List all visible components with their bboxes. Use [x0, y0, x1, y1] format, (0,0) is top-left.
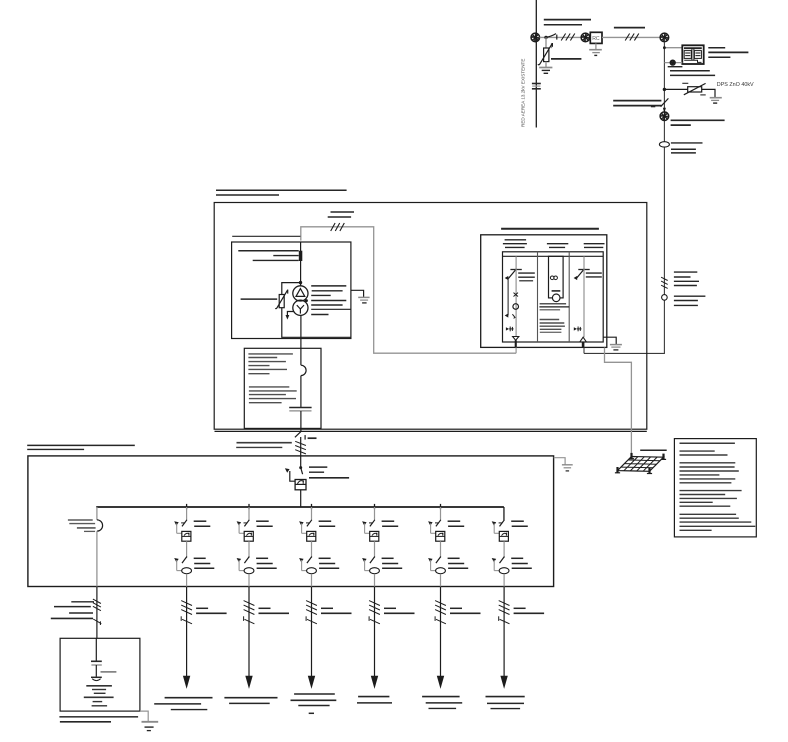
- comp3 feeder triangle: [580, 337, 587, 342]
- transformer T primary winding (delta): [293, 286, 308, 301]
- text bar (room title 2): [216, 194, 279, 196]
- surge arrester at transformer (varistor box): [279, 295, 284, 308]
- feeder 4 breaker blade: [370, 520, 375, 527]
- feeder 5 wire to box bottom: [440, 574, 442, 587]
- feeder 4 wire breaker to switch: [374, 541, 376, 558]
- three-phase slashes: [561, 34, 565, 41]
- feeder 2 arrowhead: [245, 676, 252, 689]
- feeder 6 drop wire: [503, 507, 505, 520]
- feeder 2 outgoing wire: [248, 587, 250, 678]
- arrester diagonal: [275, 290, 287, 309]
- three-phase slashes on LV main: [295, 441, 306, 445]
- feeder 5 switch label bars: [448, 557, 460, 559]
- fuse (filled): [299, 251, 303, 261]
- wire incoming overhead line (vertical): [535, 0, 537, 128]
- fuse (expulsion cutout ellipse): [659, 142, 669, 147]
- text bars (cable spec group 1): [674, 271, 697, 273]
- text bars (meter note): [670, 70, 710, 72]
- line break marks on overhead line: [532, 83, 541, 85]
- comp3 switch blade: [576, 269, 584, 278]
- earthing grid mesh: [618, 457, 664, 472]
- text bars (fuse label): [238, 250, 298, 252]
- comp3 test plug symbol: [574, 327, 577, 330]
- feeder 5 switch blade: [436, 557, 441, 564]
- three-phase slashes: [625, 34, 629, 41]
- feeder 6 arrowhead: [500, 676, 507, 689]
- comp2 fuse tube box: [549, 256, 564, 298]
- comp2 indicator lamp circle: [552, 294, 560, 302]
- switchgear inner box: [503, 252, 604, 342]
- surge arrester (varistor box): [544, 48, 549, 62]
- cabinet earth wire: [140, 711, 148, 721]
- comp2 bar: [552, 290, 561, 292]
- text bar (switch label): [308, 437, 317, 439]
- text bars left of riser disconnect: [613, 100, 661, 102]
- feeder 1 switch blade: [182, 557, 187, 564]
- comp2 shelf lines: [540, 303, 567, 305]
- feeder 4 arrowhead: [371, 676, 378, 689]
- feeder 1 wire to box bottom: [186, 574, 188, 587]
- comp3 top contact bar: [578, 269, 589, 271]
- grid corner rods: [630, 453, 632, 459]
- DPS ZnO 40kV surge arrester (varistor): [688, 87, 702, 92]
- feeder 5 destination label bars: [422, 696, 460, 698]
- wire: [95, 665, 97, 677]
- LV busbar: [96, 506, 504, 508]
- text bars (metering notes group 1): [248, 353, 293, 355]
- surge arrester diagonal stroke: [538, 43, 552, 65]
- comp1 label bars: [518, 272, 535, 274]
- feeder 5 switch arrow: [428, 558, 433, 562]
- disconnect switch blade: [546, 34, 556, 38]
- feeder 3 switch label bars: [319, 557, 331, 559]
- feeder 2 switch blade: [244, 557, 249, 564]
- feeder 4 switch label bars: [382, 557, 394, 559]
- three-phase slashes on cable: [331, 223, 335, 231]
- text bar above transformer box: [232, 235, 300, 237]
- feeder 3 switch blade: [307, 557, 312, 564]
- feeder 1 switch label bars: [194, 557, 206, 559]
- wire through CT: [300, 376, 302, 408]
- feeder 5 cable size bars: [450, 607, 462, 609]
- feeder 2 switch arrow: [237, 558, 242, 562]
- text bar (switchgear title): [501, 228, 599, 230]
- feeder 4 breaker label bars: [382, 520, 395, 522]
- comp3 feeder stud: [582, 342, 585, 348]
- feeder 5 fuse ellipse: [436, 568, 446, 574]
- current transformer (ring): [301, 365, 306, 375]
- small circle (cable marker): [662, 295, 668, 301]
- feeder 5 cable slashes: [435, 601, 446, 606]
- text bar (span label): [614, 27, 645, 29]
- svg-text:DPS ZnO 40kV: DPS ZnO 40kV: [717, 82, 754, 88]
- wire RC to pole node: [602, 36, 660, 38]
- ground (cabinet earth): [142, 721, 159, 723]
- feeder 6 destination label bars: [486, 696, 525, 698]
- CT node (small): [670, 60, 675, 65]
- text bar (arrester label): [241, 298, 278, 300]
- feeder 3 destination label bars: [294, 693, 335, 695]
- wire secondary to cell right side: [311, 308, 351, 310]
- comp3 plug contact: [574, 276, 578, 280]
- comp1 plug contact lower: [505, 313, 509, 317]
- text bars (meter labels): [708, 47, 725, 49]
- wire tap to kWh meter: [664, 47, 682, 49]
- wire tap to disconnector: [540, 36, 582, 38]
- feeder 3 cable size bars: [321, 607, 333, 609]
- node at pole riser: [660, 33, 669, 42]
- feeder 4 fuse ellipse: [370, 568, 380, 574]
- feeder 3 fuse ellipse: [307, 568, 317, 574]
- feeder 6 breaker trip arrow: [492, 521, 497, 525]
- battery stack plates: [86, 685, 112, 687]
- svg-text:RED AEREA 13.2kV EXISTENTE: RED AEREA 13.2kV EXISTENTE: [521, 59, 526, 127]
- wire comp1 stud down to cable: [515, 348, 517, 354]
- feeder 6 breaker box: [499, 531, 508, 541]
- feeder 5 bus tap: [440, 504, 442, 509]
- board enclosure earth wire: [554, 458, 566, 465]
- feeder 3 breaker label bars: [319, 520, 332, 522]
- cell earth tap wire: [351, 290, 364, 297]
- feeder 1 bus tap: [186, 504, 188, 509]
- feeder 4 switch arrow: [362, 558, 367, 562]
- feeder 2 wire to box bottom: [248, 574, 250, 587]
- feeder 5 outgoing wire: [440, 587, 442, 678]
- feeder 4 drop wire: [374, 507, 376, 520]
- wire transformer primary drop: [300, 242, 302, 286]
- line under boundary box: [215, 430, 647, 432]
- text bar (arrester label): [551, 58, 581, 60]
- comp2 text bar: [540, 309, 561, 311]
- transformer cell box: [232, 242, 351, 339]
- text bar (pole label line 2): [544, 24, 582, 26]
- feeder 6 switch arrow: [492, 558, 497, 562]
- winding junction dot: [305, 299, 308, 302]
- comp1 riser wire: [515, 256, 517, 269]
- wire to transformer arrester: [282, 283, 301, 295]
- text bar (battery label): [101, 671, 117, 673]
- comp1 wire: [515, 269, 517, 337]
- feeder 1 arrowhead: [183, 676, 190, 689]
- metering cabinet box: [244, 348, 321, 428]
- feeder 4 breaker trip arrow: [362, 521, 367, 525]
- feeder 2 cable size bars: [259, 607, 271, 609]
- wire CT tap to meter: [664, 62, 682, 64]
- feeder 3 arrowhead: [308, 676, 315, 689]
- text bars (transformer data): [311, 285, 346, 287]
- feeder 6 wire to box bottom: [503, 574, 505, 587]
- ground (transformer cell earth): [358, 296, 369, 298]
- feeder 3 switch arrow: [299, 558, 304, 562]
- feeder 6 switch label bars: [511, 557, 523, 559]
- DC supply drop wire: [96, 587, 98, 639]
- neutral grounding arrow: [287, 312, 293, 316]
- feeder 6 wire breaker to switch: [503, 541, 505, 558]
- feeder 2 fuse ellipse: [244, 568, 254, 574]
- text bars (cable label): [331, 211, 355, 213]
- feeder 4 outgoing wire: [374, 587, 376, 678]
- feeder 2 bus tap: [248, 504, 250, 509]
- main breaker trip arrow: [285, 468, 290, 473]
- feeder 6 breaker label bars: [511, 520, 524, 522]
- feeder 5 wire breaker to switch: [440, 541, 442, 558]
- feeder 1 cable size bars: [196, 607, 208, 609]
- compartment divider 2: [568, 252, 570, 342]
- wire comp3 stud down to riser cable: [583, 348, 585, 354]
- feeder 2 switch label bars: [256, 557, 268, 559]
- feeder 5 breaker box: [436, 531, 445, 541]
- text bars compartment 1 title: [505, 239, 526, 241]
- feeder 3 breaker box: [307, 531, 316, 541]
- feeder 4 cable size bars: [384, 607, 396, 609]
- text bars (cable spec group 2): [674, 295, 706, 297]
- note text bars: [680, 442, 735, 444]
- comp1 feeder stud: [515, 340, 517, 347]
- main breaker box: [295, 480, 306, 490]
- cell plate with cup: [91, 676, 102, 678]
- feeder 5 breaker trip arrow: [428, 521, 433, 525]
- LV main disconnect blade: [295, 431, 301, 437]
- riser disconnect switch blade: [661, 98, 669, 106]
- feeder 6 breaker blade: [500, 520, 505, 527]
- comp1 X mark: [514, 293, 519, 297]
- feeder 2 destination label bars: [224, 697, 277, 699]
- ground stem under RC box: [595, 43, 597, 49]
- feeder 6 cable size bars: [514, 607, 526, 609]
- bus right end bend into feeder 6: [503, 507, 505, 520]
- feeder 1 outgoing wire: [186, 587, 188, 678]
- wire MV cable run (transformer to switchgear): [301, 227, 516, 353]
- wire DPS to ground: [702, 89, 715, 97]
- comp1 breaker blade: [508, 269, 516, 278]
- feeder 1 destination label bars: [165, 697, 213, 699]
- inner top band line: [503, 255, 604, 257]
- feeder 1 wire breaker to switch: [186, 541, 188, 558]
- wire riser down to switchgear (vertical): [663, 42, 665, 354]
- feeder 1 switch arrow: [174, 558, 179, 562]
- comp2 fuse link circles: [550, 276, 554, 280]
- text bars (neutral label): [68, 519, 93, 521]
- capacitor marks: [91, 660, 102, 662]
- feeder 4 switch blade: [370, 557, 375, 564]
- text bars (metering notes group 2): [249, 386, 289, 388]
- feeder 1 breaker blade: [182, 520, 187, 527]
- notes box: [674, 439, 756, 537]
- feeder 6 outgoing wire: [503, 587, 505, 678]
- DC battery cabinet box: [60, 638, 140, 711]
- single slash lower: [93, 619, 101, 624]
- wire into cabinet: [95, 638, 97, 661]
- feeder 3 wire breaker to switch: [311, 541, 313, 558]
- node below disconnect: [660, 112, 669, 121]
- feeder 3 drop wire: [311, 507, 313, 520]
- text bars right of fuse: [671, 142, 703, 144]
- text bars compartment 2 title: [547, 243, 568, 245]
- feeder 2 cable slashes: [244, 601, 255, 606]
- switchgear earth tap: [603, 337, 616, 344]
- text bars (main breaker label): [309, 466, 327, 468]
- feeder 5 drop wire: [440, 507, 442, 520]
- comp1 truck bar: [507, 279, 509, 316]
- feeder 4 destination label bars: [358, 696, 389, 698]
- slashes on DC drop: [93, 599, 101, 603]
- text bars left of LV main: [237, 442, 292, 444]
- feeder 3 wire to box bottom: [311, 574, 313, 587]
- text bar below: [311, 314, 328, 316]
- bus left end drop with hop: [96, 507, 98, 520]
- ground (arrester earth): [539, 67, 552, 69]
- wire to LV switch: [300, 411, 302, 431]
- wire riser into switchgear: [584, 352, 665, 354]
- feeder 5 breaker blade: [436, 520, 441, 527]
- node tap connection on overhead line: [531, 33, 540, 42]
- compartment divider 1: [537, 252, 539, 342]
- svg-text:RC: RC: [592, 36, 600, 42]
- text bars compartment 3 title: [584, 243, 605, 245]
- ground (switchgear earth): [610, 344, 622, 346]
- comp1 top contact bar: [510, 269, 521, 271]
- text bar (earth grid label): [640, 449, 667, 451]
- feeder 3 breaker blade: [307, 520, 312, 527]
- feeder 1 breaker box: [182, 531, 191, 541]
- feeder 6 cable slashes: [499, 601, 510, 606]
- wire arrester to cell earth loop: [282, 308, 351, 338]
- text bars right of node: [671, 119, 725, 121]
- text bars under cabinet: [59, 716, 138, 718]
- distribution board box: [28, 456, 554, 587]
- feeder 3 breaker trip arrow: [299, 521, 304, 525]
- cable slashes on riser: [661, 277, 668, 280]
- ground (RC earth): [589, 49, 602, 51]
- feeder 1 breaker trip arrow: [174, 521, 179, 525]
- comp1 indicator circle: [513, 304, 519, 310]
- substation room boundary box: [214, 203, 647, 430]
- capacitor marks (cable termination): [289, 407, 311, 409]
- comp1 plug contact upper: [505, 276, 509, 280]
- surge arrester disconnector hook: [551, 43, 553, 48]
- feeder 4 breaker box: [370, 531, 379, 541]
- feeder 4 cable slashes: [369, 601, 380, 606]
- feeder 3 cable slashes: [306, 601, 317, 606]
- feeder 3 bus tap: [311, 504, 313, 509]
- feeder 6 fuse ellipse: [499, 568, 509, 574]
- feeder 1 drop wire: [186, 507, 188, 520]
- feeder 2 drop wire: [248, 507, 250, 520]
- wire to distribution board: [300, 437, 302, 467]
- feeder 3 outgoing wire: [311, 587, 313, 678]
- feeder 1 cable slashes: [181, 601, 192, 606]
- earth grid bonding wire: [605, 348, 632, 457]
- junction dot: [544, 36, 547, 39]
- comp3 label bars: [586, 272, 602, 274]
- feeder 5 breaker label bars: [448, 520, 461, 522]
- wire arrester to ground: [545, 62, 547, 68]
- text bar (pole label line 1): [544, 19, 591, 21]
- feeder 2 wire breaker to switch: [248, 541, 250, 558]
- junction dot DPS tap: [663, 88, 666, 91]
- text bars (DC feeder label): [71, 601, 94, 603]
- ground (DPS earth): [710, 97, 722, 99]
- text bars (board title): [27, 444, 135, 446]
- comp2 note bars: [540, 319, 560, 321]
- feeder 2 breaker label bars: [256, 520, 269, 522]
- wire to DPS arrester: [664, 88, 687, 90]
- comp1 feeder triangle: [513, 337, 519, 341]
- feeder 2 breaker trip arrow: [237, 521, 242, 525]
- switchgear outer box: [481, 235, 607, 348]
- junction dot above transformer: [299, 281, 302, 284]
- feeder 1 breaker label bars: [194, 520, 207, 522]
- kWh meter box: [682, 45, 703, 64]
- feeder 2 breaker blade: [244, 520, 249, 527]
- RC unit box: [590, 32, 602, 43]
- main breaker contact: [299, 466, 302, 469]
- arrowhead on riser: [663, 108, 666, 113]
- feeder 5 arrowhead: [437, 676, 444, 689]
- ground (board earth): [562, 464, 573, 466]
- wire main breaker to bus: [300, 490, 302, 507]
- feeder 2 breaker box: [244, 531, 253, 541]
- text bar (room title 1): [216, 189, 347, 191]
- node before RC unit: [581, 33, 590, 42]
- transformer T secondary winding (wye): [293, 300, 308, 315]
- comp1 test plug symbol: [506, 327, 509, 330]
- feeder 4 wire to box bottom: [374, 574, 376, 587]
- wire transformer secondary down: [300, 315, 302, 365]
- comp3 riser wire: [583, 256, 585, 269]
- feeder 6 switch blade: [500, 557, 505, 564]
- surge arrester lead wire: [545, 37, 547, 48]
- feeder 4 bus tap: [374, 504, 376, 509]
- feeder 1 fuse ellipse: [182, 568, 192, 574]
- comp3 wire: [583, 269, 585, 337]
- text bar under meter tap: [668, 66, 683, 68]
